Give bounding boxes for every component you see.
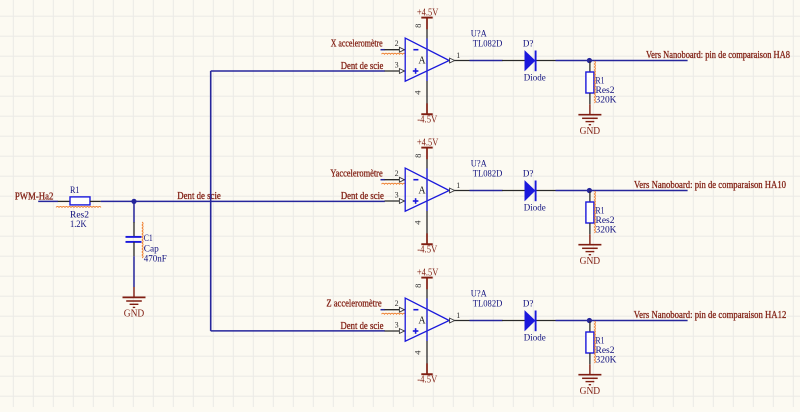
svg-text:3: 3 — [395, 61, 399, 70]
svg-text:320K: 320K — [596, 356, 617, 366]
op-amp pin 3 (row 2) — [385, 191, 406, 204]
svg-text:Dent de scie: Dent de scie — [341, 191, 384, 202]
svg-text:R1: R1 — [596, 76, 605, 86]
svg-text:320K: 320K — [596, 226, 617, 236]
svg-text:8: 8 — [413, 24, 423, 28]
op-amp pin 1 output (row 2) — [449, 181, 469, 193]
svg-text:D?: D? — [523, 40, 534, 50]
svg-text:8: 8 — [413, 284, 423, 288]
power port -4.5V (row 1) — [417, 103, 438, 125]
junction at resistor tap (row 1) — [587, 58, 592, 63]
op-amp pin 1 output (row 3) — [449, 311, 469, 323]
wire op-amp output to diode (row 3) — [470, 320, 503, 322]
op-amp pin 1 output (row 1) — [449, 51, 469, 63]
resistor R1 1.2K — [58, 197, 101, 205]
wire op-amp output to diode (row 2) — [470, 190, 503, 192]
svg-text:U?A: U?A — [471, 159, 487, 169]
capacitor C1 — [126, 222, 142, 256]
op-amp pin 4 V- (row 3) — [413, 341, 427, 364]
ground GND (row 2) — [578, 234, 601, 267]
svg-text:+4.5V: +4.5V — [417, 267, 439, 278]
wire PWM-Ha2 to R1 — [38, 200, 58, 202]
svg-text:Diode: Diode — [524, 333, 546, 343]
svg-text:A: A — [418, 185, 426, 196]
svg-text:2: 2 — [395, 299, 399, 308]
svg-text:TL082D: TL082D — [473, 170, 503, 180]
resistor R1 320K (row 2) — [586, 192, 594, 235]
svg-text:Yacceleromètre: Yacceleromètre — [330, 168, 383, 179]
svg-text:1: 1 — [456, 311, 460, 320]
svg-text:X acceleromètre: X acceleromètre — [331, 38, 383, 49]
svg-text:D?: D? — [523, 300, 534, 310]
svg-text:GND: GND — [580, 256, 601, 267]
warning squiggle C1 — [142, 222, 143, 258]
svg-text:Dent de scie: Dent de scie — [177, 191, 221, 202]
warning squiggle pin2 (row 3) — [382, 313, 406, 314]
svg-text:C1: C1 — [144, 234, 153, 244]
warning squiggle resistor (row 1) — [594, 61, 595, 103]
wire diode to output net (row 2) — [556, 190, 688, 192]
power port -4.5V (row 2) — [417, 233, 438, 255]
op-amp pin 4 V- (row 2) — [413, 211, 427, 234]
resistor R1 320K (row 1) — [586, 62, 594, 105]
svg-text:-4.5V: -4.5V — [417, 374, 438, 385]
wire Dent de scie to op-amp 3 pin 3 — [211, 330, 385, 332]
diode D? (row 2) — [502, 181, 556, 202]
op-amp U?A (row 1) — [405, 38, 449, 81]
op-amp pin 8 V+ (row 2) — [413, 154, 427, 169]
svg-text:Z acceleromètre: Z acceleromètre — [326, 298, 382, 309]
warning squiggle R1 — [56, 206, 101, 207]
op-amp pin 8 V+ (row 3) — [413, 284, 427, 299]
op-amp pin 2 (row 1) — [385, 39, 406, 52]
svg-text:A: A — [418, 315, 426, 326]
svg-text:8: 8 — [413, 154, 423, 158]
op-amp pin 3 (row 3) — [385, 321, 406, 334]
wire vertical Dent de scie bus — [210, 71, 212, 331]
ground GND (row 3) — [578, 364, 601, 397]
svg-text:U?A: U?A — [471, 289, 487, 299]
svg-text:D?: D? — [523, 170, 534, 180]
svg-text:Diode: Diode — [524, 73, 546, 83]
svg-text:R1: R1 — [596, 206, 605, 216]
svg-text:Diode: Diode — [524, 203, 546, 213]
svg-text:-4.5V: -4.5V — [417, 244, 438, 255]
junction at resistor tap (row 2) — [587, 188, 592, 193]
svg-text:TL082D: TL082D — [473, 300, 503, 310]
power port +4.5V (row 2) — [417, 137, 439, 159]
svg-text:Dent de scie: Dent de scie — [341, 321, 384, 332]
svg-text:3: 3 — [395, 321, 399, 330]
resistor R1 320K (row 3) — [586, 322, 594, 365]
wire junction down to capacitor — [133, 201, 135, 222]
svg-text:+4.5V: +4.5V — [417, 137, 439, 148]
svg-text:+4.5V: +4.5V — [417, 7, 439, 18]
svg-text:1: 1 — [456, 51, 460, 60]
svg-text:2: 2 — [395, 39, 399, 48]
svg-text:GND: GND — [580, 386, 601, 397]
wire Dent de scie to op-amp 1 pin 3 — [211, 70, 385, 72]
svg-text:-4.5V: -4.5V — [417, 114, 438, 125]
diode D? (row 1) — [502, 51, 556, 72]
power port +4.5V (row 1) — [417, 7, 439, 29]
svg-text:320K: 320K — [596, 96, 617, 106]
svg-text:GND: GND — [124, 309, 145, 320]
warning squiggle pin2 (row 1) — [382, 53, 406, 54]
svg-text:Res2: Res2 — [596, 216, 615, 226]
svg-text:Vers Nanoboard: pin de compara: Vers Nanoboard: pin de comparaison HA12 — [634, 310, 787, 321]
svg-text:Vers Nanoboard: pin de compara: Vers Nanoboard: pin de comparaison HA8 — [646, 50, 790, 61]
op-amp pin 3 (row 1) — [385, 61, 406, 74]
svg-text:TL082D: TL082D — [473, 40, 503, 50]
warning squiggle pin2 (row 2) — [382, 183, 406, 184]
svg-text:Vers Nanoboard: pin de compara: Vers Nanoboard: pin de comparaison HA10 — [634, 180, 786, 191]
svg-text:Cap: Cap — [144, 244, 159, 254]
warning squiggle resistor (row 3) — [594, 321, 595, 363]
wire main run R1 to op-amp 2 pin 3 — [101, 200, 385, 202]
op-amp pin 8 V+ (row 1) — [413, 24, 427, 39]
wire stub pin2 (row 2) — [381, 179, 386, 181]
svg-text:1: 1 — [456, 181, 460, 190]
wire diode to output net (row 3) — [556, 320, 688, 322]
svg-text:GND: GND — [580, 126, 601, 137]
svg-text:Dent de scie: Dent de scie — [341, 61, 384, 72]
op-amp U?A (row 3) — [405, 298, 449, 341]
junction at capacitor tap — [131, 199, 136, 204]
svg-text:R1: R1 — [70, 186, 80, 196]
wire stub pin2 (row 1) — [381, 49, 386, 51]
svg-text:U?A: U?A — [471, 29, 487, 39]
warning squiggle resistor (row 2) — [594, 191, 595, 233]
diode D? (row 3) — [502, 311, 556, 332]
svg-text:R1: R1 — [596, 336, 605, 346]
svg-text:1.2K: 1.2K — [70, 220, 87, 230]
junction at resistor tap (row 3) — [587, 318, 592, 323]
svg-text:Res2: Res2 — [596, 346, 615, 356]
op-amp pin 2 (row 3) — [385, 299, 406, 312]
power port -4.5V (row 3) — [417, 363, 438, 385]
ground GND (C1) — [123, 287, 146, 320]
svg-text:A: A — [418, 55, 426, 66]
svg-text:3: 3 — [395, 191, 399, 200]
svg-text:470nF: 470nF — [144, 254, 167, 264]
wire stub pin2 (row 3) — [381, 309, 386, 311]
op-amp pin 2 (row 2) — [385, 169, 406, 182]
svg-text:Res2: Res2 — [596, 86, 615, 96]
op-amp pin 4 V- (row 1) — [413, 81, 427, 104]
svg-text:2: 2 — [395, 169, 399, 178]
wire op-amp output to diode (row 1) — [470, 60, 503, 62]
wire capacitor to ground — [133, 256, 135, 287]
wire diode to output net (row 1) — [556, 60, 688, 62]
power port +4.5V (row 3) — [417, 267, 439, 289]
op-amp U?A (row 2) — [405, 168, 449, 211]
ground GND (row 1) — [578, 104, 601, 137]
